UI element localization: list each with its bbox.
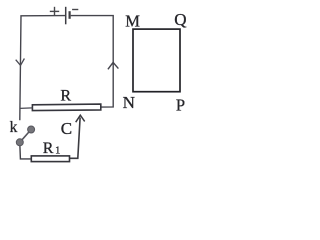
- svg-text:1: 1: [55, 145, 60, 156]
- svg-text:k: k: [10, 119, 18, 136]
- svg-text:R: R: [60, 88, 71, 105]
- svg-text:R: R: [43, 140, 54, 157]
- svg-text:N: N: [123, 93, 135, 112]
- svg-text:P: P: [176, 95, 185, 114]
- svg-text:C: C: [61, 119, 72, 138]
- svg-text:Q: Q: [174, 10, 186, 29]
- svg-text:M: M: [125, 12, 140, 31]
